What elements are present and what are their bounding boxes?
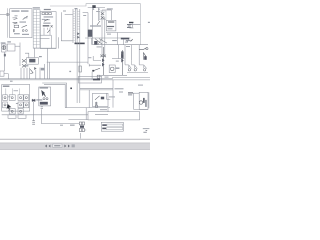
- wire bus y88.7: [80, 88, 113, 90]
- contact X3: [22, 59, 26, 62]
- solenoid L1: [121, 51, 124, 58]
- wire drop x118.6: [118, 45, 120, 59]
- diode D4: [34, 67, 36, 70]
- connector P3: [41, 107, 43, 109]
- pump box BR: [139, 92, 148, 109]
- relay K4 box: [93, 93, 109, 106]
- divider U2: [40, 34, 51, 36]
- wire drop x125: [124, 45, 126, 65]
- wire vertical x102: [101, 10, 103, 55]
- wire bus y78.8: [0, 78, 113, 80]
- wire stub x61.3: [61, 12, 73, 41]
- cursor arrow: [7, 104, 12, 110]
- footer text FT2: [146, 129, 148, 132]
- terminal TB2: [45, 13, 48, 15]
- label under box: [7, 41, 11, 42]
- wire bus y44.7: [92, 44, 148, 46]
- capacitor C2 dark: [94, 41, 97, 45]
- node dots X5: [32, 100, 36, 102]
- node T2: [98, 8, 100, 10]
- wire crossing diag1: [95, 39, 102, 45]
- relay K4 coil dark: [101, 97, 104, 100]
- label U2 row2: [43, 23, 50, 24]
- label on wire: [70, 125, 75, 126]
- wire vertical x98.5: [98, 8, 100, 21]
- lamp cell A3: [18, 95, 23, 101]
- wire bus y38: [85, 37, 130, 39]
- switch S12 blade: [94, 68, 101, 70]
- label U3 row2: [107, 26, 114, 27]
- control box U2: [40, 12, 56, 49]
- wire x133.6: [134, 93, 148, 109]
- diode D1: [51, 25, 53, 27]
- wire internal: [40, 38, 49, 40]
- wire x47.3 long: [46, 48, 48, 79]
- legend box LB: [101, 122, 123, 131]
- label dark y38.5: [121, 38, 129, 40]
- switch S3: [47, 30, 50, 33]
- contact SW1a: [43, 98, 45, 100]
- wire bus y58.6: [112, 58, 124, 60]
- switch S12 node: [92, 70, 94, 72]
- motor M1 symbol: [2, 46, 6, 50]
- label U1 row: [14, 33, 20, 34]
- label U3 row3: [108, 28, 113, 29]
- pin rungs CS2: [77, 12, 80, 30]
- wire drops K3: [36, 68, 40, 79]
- connector P1: [6, 14, 9, 16]
- label X5: [36, 99, 42, 100]
- wire stub into x88: [83, 12, 88, 14]
- wire vertical x88: [87, 13, 89, 65]
- connector CN2 bottom: [79, 129, 81, 132]
- lamp cell B3: [18, 102, 23, 108]
- wire W3 left input: [0, 13, 10, 15]
- label S1: [20, 22, 27, 23]
- connector P9: [92, 5, 95, 8]
- switch S6: [144, 52, 147, 60]
- lamp cell B1: [3, 102, 8, 108]
- label tiny x70: [69, 71, 71, 72]
- wire drops cluster: [21, 68, 30, 79]
- wire corner B: [44, 84, 65, 107]
- label U2 title: [44, 9, 51, 10]
- label y40.5 left: [112, 40, 117, 41]
- motor M2: [139, 101, 142, 104]
- wire x113: [112, 80, 114, 108]
- contact K1b circles: [22, 30, 24, 32]
- wire bus y79.9: [0, 79, 150, 81]
- label K2: [90, 25, 101, 26]
- viewer toolbar: [0, 143, 150, 150]
- fuse F3 dark bar: [43, 25, 50, 26]
- label y40.5 right: [126, 40, 130, 41]
- wire to BR: [133, 92, 139, 94]
- switch S11: [95, 96, 100, 100]
- contact S5 circle: [146, 48, 148, 50]
- contact K1a: [22, 25, 28, 27]
- pin rungs CS1: [73, 11, 75, 40]
- connector strip CS2: [77, 9, 80, 103]
- box B2: [7, 44, 15, 51]
- wire drop x7.3: [6, 8, 8, 37]
- wire SW1 down: [40, 109, 42, 123]
- wire jog x28.8: [25, 53, 29, 58]
- wire drop x58.7: [58, 37, 60, 48]
- wire U2 drops: [44, 28, 50, 36]
- module U3: [106, 20, 116, 31]
- switch S1: [23, 16, 28, 20]
- contact X6: [100, 55, 106, 58]
- wire bus y75.3: [100, 74, 127, 76]
- lamp cell A4: [24, 95, 29, 101]
- terminal TB1: [42, 13, 45, 15]
- wire y73.6: [4, 74, 8, 79]
- connector P2: [32, 121, 35, 124]
- pin rungs J1: [33, 13, 40, 45]
- lamp cell B4: [24, 102, 29, 108]
- label J1 header: [33, 7, 40, 8]
- battery BT1: [127, 25, 132, 28]
- legend row2 pill: [106, 128, 122, 130]
- wire bus y114.8: [2, 114, 88, 116]
- battery BAT label: [129, 22, 133, 23]
- label BLK dark: [75, 43, 85, 45]
- wire bus y77.5 right: [112, 77, 150, 79]
- resistor R1: [13, 29, 15, 32]
- wire y119.6: [68, 119, 88, 121]
- legend row1 pill: [107, 124, 123, 126]
- wire x49.4: [48, 62, 50, 79]
- switch S8: [135, 65, 138, 69]
- connector table J1: [33, 10, 40, 48]
- wire vertical x123.3: [122, 39, 124, 44]
- label U1 row2: [22, 34, 29, 35]
- fuse box U1: [10, 9, 32, 38]
- switch S4: [97, 21, 100, 25]
- element E1: [143, 98, 145, 103]
- gauge G1 dial: [110, 67, 114, 71]
- wire drop x131.7: [131, 45, 133, 61]
- switch S9: [144, 65, 147, 69]
- wire net name labels: [15, 14, 18, 17]
- label LG row: [14, 90, 19, 91]
- wire x148.9: [148, 92, 150, 108]
- page bottom rule: [0, 138, 150, 141]
- lamp cell D2: [18, 115, 26, 119]
- wire x33.6: [33, 102, 35, 121]
- wire y65.2: [89, 64, 101, 67]
- lamp cell A2: [9, 95, 15, 101]
- diode D2 on CS2: [77, 32, 79, 35]
- contact S8 circle: [134, 69, 136, 71]
- switch S2: [44, 19, 48, 21]
- distribution box LG: [2, 85, 30, 112]
- lamp cell A1: [3, 95, 8, 101]
- fuse F2: [13, 22, 18, 24]
- label K3 right: [39, 56, 42, 57]
- label SW1: [40, 87, 48, 88]
- sensor B4: [97, 75, 100, 78]
- contact S7 circle: [128, 69, 130, 71]
- fuse F4 dark: [144, 56, 147, 60]
- panel A rectangle: [88, 112, 140, 120]
- resistor R2: [95, 102, 97, 106]
- wire W2 feed: [88, 7, 105, 9]
- footer text FT3: [143, 131, 146, 134]
- note text NT1: [128, 92, 133, 93]
- label LG header: [3, 86, 10, 87]
- node T1: [93, 8, 95, 10]
- wire bottom J1/U2: [33, 47, 56, 49]
- contact X1: [101, 16, 104, 19]
- wire y46 link: [15, 45, 20, 47]
- pin column divider J1: [36, 10, 38, 48]
- diode D3 on CS2: [77, 36, 79, 39]
- label right edge: [148, 22, 150, 23]
- wire x4.4: [3, 52, 5, 71]
- junction box TR: [79, 76, 102, 83]
- wire y10: [102, 9, 111, 11]
- legend row2 text: [102, 128, 106, 130]
- label U2 row1: [44, 16, 54, 17]
- wire x108 drop: [95, 108, 108, 115]
- lamp cell C3: [18, 109, 23, 114]
- node dot x71: [70, 88, 72, 90]
- label G1: [116, 68, 120, 69]
- wire corner A: [42, 83, 66, 108]
- wire drop x139.2: [138, 45, 140, 65]
- relay K5 outline: [100, 11, 107, 20]
- relay K2 coil dark: [88, 30, 92, 37]
- junction X5: [32, 99, 35, 102]
- wire CN2 stub: [81, 130, 87, 139]
- key switch stem: [43, 93, 45, 97]
- wire K4 right: [107, 93, 111, 99]
- fuse F5 dark: [4, 54, 6, 57]
- motor M1 box left: [2, 44, 6, 52]
- wire x86.2: [85, 108, 87, 120]
- note text NT2: [128, 94, 132, 95]
- relay K3 coil dark: [29, 59, 35, 63]
- relay K1 coil: [14, 25, 19, 27]
- wire x89.2: [88, 90, 90, 108]
- label K3 foot: [41, 68, 44, 71]
- diode stack DS1: [102, 47, 104, 75]
- switch S7: [129, 65, 132, 69]
- wire y14.5: [65, 14, 73, 16]
- diode stack DS2: [122, 50, 124, 75]
- wire x20: [19, 43, 21, 67]
- fuse F1: [13, 18, 18, 20]
- contact S9 circle: [143, 69, 145, 71]
- wire vertical x117.5: [117, 33, 119, 45]
- wire bus y89.9: [80, 89, 113, 91]
- contact X4: [22, 64, 26, 67]
- inline connector on CS2: [79, 66, 82, 72]
- connector strip CS1: [73, 9, 75, 43]
- relay K3 box: [27, 58, 39, 65]
- wire row2 link y72.6: [127, 72, 148, 74]
- wire y123.6: [41, 123, 79, 125]
- wire jogs to switches: [125, 60, 144, 65]
- label on bus: [10, 81, 13, 82]
- box B3: [0, 71, 4, 76]
- wire x44.7: [44, 64, 46, 79]
- label U2 row1b: [44, 19, 50, 20]
- node J2 circle: [95, 105, 98, 108]
- contact X2: [101, 12, 104, 15]
- wire vertical x92.5: [92, 8, 94, 45]
- contact row dark: [40, 102, 48, 105]
- label U3 row1: [108, 21, 114, 22]
- wire mid y62.1: [47, 61, 88, 63]
- label U1 title: [12, 10, 20, 11]
- wire BT1 to x140.4: [129, 24, 140, 29]
- ground GND1 squiggle: [127, 39, 133, 42]
- motor M1 mark: [3, 46, 5, 50]
- legend row1 text: [102, 124, 107, 126]
- connector CN2 dark pins: [80, 126, 84, 128]
- terminal TB3: [49, 13, 52, 15]
- label above CS1: [75, 8, 78, 9]
- divider lines LG: [6, 88, 20, 94]
- wire bus y107.6: [65, 107, 110, 109]
- label BR top: [138, 85, 143, 86]
- label M1: [1, 42, 6, 43]
- footer text FT1: [143, 127, 150, 130]
- wire vertical x91.7: [91, 38, 93, 45]
- ignition switch SW1 box: [39, 87, 51, 106]
- wire drop x51.3: [50, 35, 52, 48]
- wire vertical x111.4: [110, 10, 112, 20]
- wire bus y32.5: [106, 32, 140, 34]
- wire crossing diag2: [98, 39, 102, 45]
- wire vertical x104.8: [104, 17, 106, 55]
- label tiny y88.5: [115, 88, 124, 89]
- wire ledge y60.4: [93, 56, 101, 60]
- wire feed K3: [34, 48, 36, 57]
- contact SW1b: [46, 98, 48, 100]
- label K3 left: [25, 65, 28, 66]
- switch S5: [139, 48, 147, 50]
- switch S10: [30, 69, 33, 73]
- lamp cell D1: [8, 115, 16, 119]
- wire crossing diag3: [99, 39, 107, 44]
- label TR dark: [93, 79, 100, 81]
- gauge G1 box: [109, 65, 115, 73]
- element E2: [145, 100, 147, 107]
- key switch dark: [41, 90, 45, 96]
- wire top bus W1: [50, 4, 140, 45]
- toolbar nav icons: [45, 145, 47, 148]
- lamp cell C2: [9, 109, 15, 114]
- connector CN2 top: [79, 122, 81, 125]
- label above y10: [107, 8, 113, 9]
- wire x92.1: [91, 72, 93, 80]
